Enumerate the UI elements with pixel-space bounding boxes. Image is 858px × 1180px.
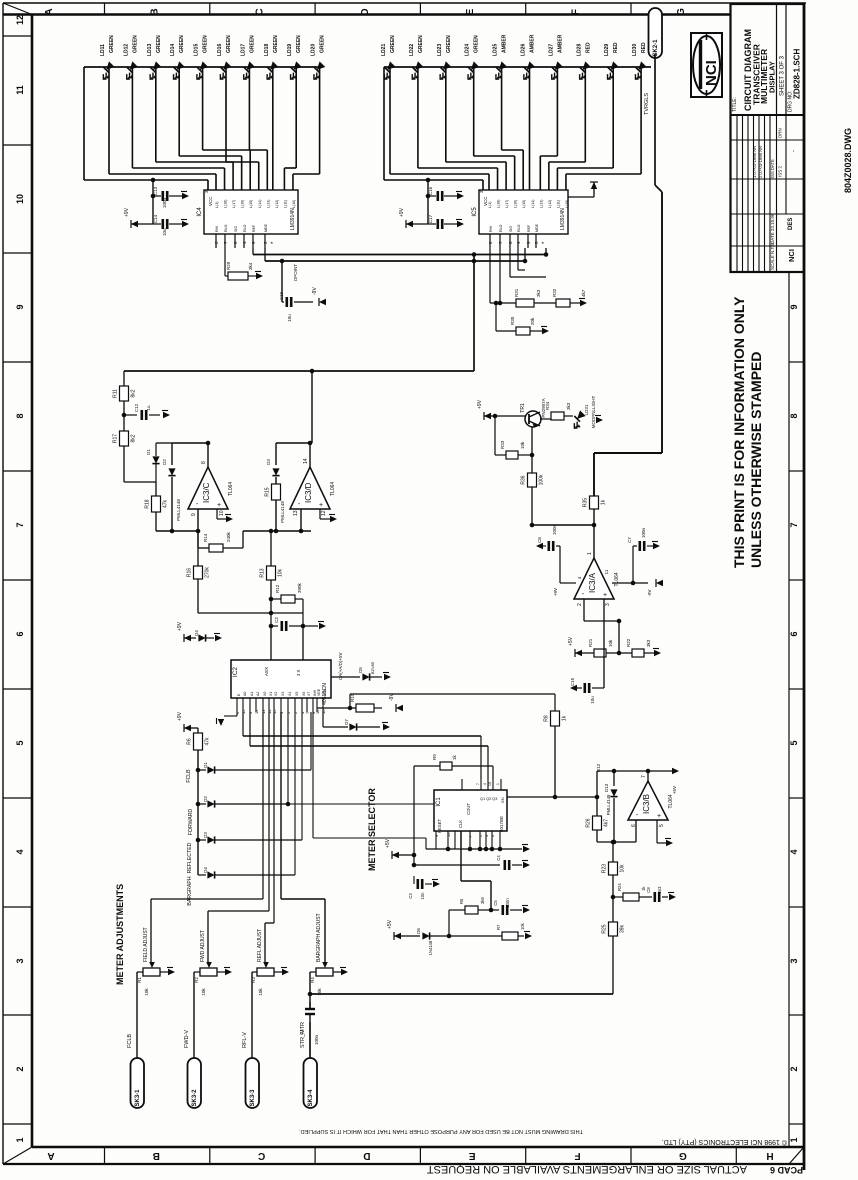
LED LD16 GREEN [214,61,235,82]
svg-text:3n3: 3n3 [657,886,662,894]
power pin 11 -9V right [612,582,648,584]
svg-text:L(18): L(18) [224,200,228,208]
svg-text:PCAD 6: PCAD 6 [770,1165,803,1175]
svg-text:UNLESS OTHERWISE STAMPED: UNLESS OTHERWISE STAMPED [748,351,764,568]
svg-text:+5V: +5V [385,838,391,848]
svg-text:FCLB: FCLB [186,769,192,783]
resistor R16 270k to output node [197,531,199,566]
svg-text:L(15): L(15) [522,200,526,208]
wire to IC3/D in- node [243,530,311,532]
svg-text:L(13): L(13) [539,200,543,208]
svg-text:IC3/A: IC3/A [588,572,597,593]
svg-text:10k: 10k [520,441,525,449]
svg-text:MDE: MDE [264,223,268,232]
svg-text:LD17: LD17 [240,44,246,56]
svg-text:RESET: RESET [437,819,442,833]
svg-text:FWD-V: FWD-V [184,1030,190,1048]
svg-text:100n: 100n [314,1034,319,1045]
trimpot RV4 10k BARGRAPH ADJUST [281,898,325,900]
svg-text:LD15: LD15 [194,44,200,56]
svg-text:10k: 10k [620,864,626,873]
svg-text:D1: D1 [203,762,208,768]
svg-text:10u: 10u [162,228,167,236]
IC IC1 4017 box [434,790,507,831]
svg-text:© 1998 NCI ELECTRONICS (PTY): © 1998 NCI ELECTRONICS (PTY) LTD. [662,1138,787,1146]
LED LD17 GREEN [237,61,258,82]
resistor R6 47k pullup [184,725,191,731]
wires into IC2 top pins [270,626,272,660]
svg-text:14: 14 [303,458,309,464]
op-amp IC3/C TL064 [188,467,228,509]
svg-text:+9V: +9V [553,588,558,596]
svg-text:REFLECTED: REFLECTED [187,842,193,873]
svg-text:R6: R6 [187,738,193,745]
svg-text:C13: C13 [153,186,158,195]
svg-text:B: B [153,1150,160,1161]
svg-text:R1: R1 [137,977,142,983]
resistor R13 10k [270,531,272,566]
wire lower node line [198,612,303,614]
svg-text:LD18: LD18 [264,44,270,56]
svg-text:9: 9 [15,304,25,309]
resistor R15 560R [272,484,281,500]
resistor R26 4k7 [593,816,602,830]
svg-text:R8: R8 [544,715,550,722]
svg-text:X0: X0 [263,692,267,696]
wires LED group1 to IC4 pins [108,67,110,174]
diode D7 row [322,712,324,727]
svg-text:X6: X6 [302,692,306,696]
svg-text:RHI: RHI [215,226,219,232]
diode D1 branch FCLB [196,768,201,773]
op-amp IC3/D TL064 [290,467,330,509]
svg-text:+9V: +9V [477,399,483,409]
title block outline [731,4,805,272]
svg-text:C1: C1 [299,1029,304,1035]
diode D5 zener row at IC2 right [331,676,360,678]
wire LED supply rail group1 [84,66,321,68]
power +5V diode D6 row [394,933,401,939]
svg-text:C3: C3 [408,893,413,899]
wire IC3/B in+ ground [656,820,658,843]
svg-text:C10: C10 [279,291,284,300]
svg-text:1k: 1k [601,499,607,505]
zener D4 with +9V [184,635,191,641]
svg-text:X4: X4 [288,692,292,696]
svg-text:BZV85: BZV85 [370,661,375,674]
svg-text:3: 3 [789,958,799,963]
wire node to IC3/A output [532,524,594,526]
resistor R34 3k3 [551,412,564,420]
svg-text:REF: REF [527,224,531,232]
svg-text:C12: C12 [134,403,139,412]
resistor R17 8k2 [120,431,129,446]
svg-text:RED: RED [585,42,591,53]
svg-text:LD21: LD21 [381,44,387,56]
svg-text:PMLL4148: PMLL4148 [280,501,285,523]
svg-text:C: C [258,1150,265,1161]
capacitor C14 10u [153,223,161,225]
svg-text:RLO: RLO [243,224,247,232]
svg-text:IC2: IC2 [232,667,239,678]
svg-text:L(12): L(12) [275,200,279,208]
svg-text:+9V: +9V [124,207,130,217]
svg-text:LD23: LD23 [437,44,443,56]
svg-text:DPOINT: DPOINT [293,264,298,281]
svg-text:DES: DES [788,218,794,230]
connector pin SK3-3 [246,1058,260,1108]
wire IC3/B output and +5V stub [647,771,649,781]
wire IC1 bus 865 [414,864,500,866]
LED LD21 GREEN [378,61,399,82]
svg-text:+: + [217,502,221,509]
wire group1 V+ drop to IC4 VCC [83,67,85,180]
svg-text:8: 8 [15,413,25,418]
svg-text:IC3/D: IC3/D [304,482,313,503]
svg-text:1 07-01-1998 NR: 1 07-01-1998 NR [752,146,757,178]
resistors below IC5: R31 R32 row [489,248,491,303]
svg-text:THIS DRAWING MUST NOT BE USED: THIS DRAWING MUST NOT BE USED FOR ANY PU… [299,1128,583,1134]
svg-text:LD13: LD13 [147,44,153,56]
svg-text:IC3/C: IC3/C [202,482,211,503]
wire long bottom horizontal to STR_MTR net [310,993,613,995]
svg-text:LD22: LD22 [409,44,415,56]
svg-text:+5V: +5V [568,636,574,646]
wire IC3/A in- network [583,599,585,621]
svg-text:R12: R12 [275,584,280,593]
svg-text:7: 7 [476,783,480,785]
svg-text:R15: R15 [265,487,271,496]
svg-text:METER SELECTOR: METER SELECTOR [367,788,377,871]
svg-text:D: D [363,1150,370,1161]
svg-text:3k3: 3k3 [646,639,651,647]
svg-text:D2: D2 [162,459,167,465]
svg-text:390k: 390k [297,582,302,593]
svg-text:2: 2 [15,1066,25,1071]
power +9V arrow group1 [131,221,138,227]
capacitor C7 100n [632,546,634,583]
svg-text:ISS 2: ISS 2 [778,165,783,177]
diode D13 PMLL4148 on feedback [613,771,615,786]
svg-text:L(11): L(11) [556,200,560,208]
resistor R35 1k [590,496,599,509]
svg-text:C2: C2 [274,617,279,623]
svg-text:1k: 1k [452,754,457,760]
title block dividers [776,4,778,115]
wire IC3/A in+ down [603,599,605,688]
svg-text:804Z0028.DWG: 804Z0028.DWG [843,128,853,193]
svg-text:9: 9 [191,513,197,516]
svg-text:R33: R33 [500,440,505,449]
capacitor C13 100n [153,195,161,197]
resistor R23 10k [612,842,614,862]
svg-text:TL064: TL064 [614,572,620,586]
svg-text:SK3-3: SK3-3 [250,1089,256,1107]
IC1 top pin stubs [461,779,463,790]
svg-text:SIG: SIG [234,226,238,232]
svg-text:GREEN: GREEN [226,35,232,53]
wires IC5 pins 8 4 down [509,248,511,277]
wire IC3/D in- down [300,509,302,531]
svg-text:4: 4 [789,849,799,854]
svg-text:R32: R32 [552,288,557,297]
wire to decoupling caps IC5 [427,180,429,224]
svg-text:GREEN: GREEN [474,35,480,53]
LED LD29 RED [601,61,622,82]
svg-text:GREEN: GREEN [203,35,209,53]
svg-text:-: - [791,150,797,152]
svg-text:A0: A0 [243,692,247,696]
diode D2 PMLL4148 feedback [171,443,173,465]
svg-text:C17: C17 [428,214,433,223]
svg-text:LD31: LD31 [584,404,589,415]
svg-text:LD19: LD19 [287,44,293,56]
svg-text:GREEN: GREEN [109,35,115,53]
svg-text:10k: 10k [201,988,206,996]
svg-text:3k3: 3k3 [566,402,571,410]
zone numbers left edge [3,35,32,37]
svg-text:L(16): L(16) [514,200,518,208]
svg-text:SK3-2: SK3-2 [192,1089,198,1107]
LED LD14 GREEN [167,61,188,82]
svg-text:SCALE N.T.S.: SCALE N.T.S. [770,242,775,270]
svg-text:-9V: -9V [647,589,652,596]
svg-text:4k7: 4k7 [604,819,610,827]
svg-text:A1: A1 [250,692,254,696]
svg-text:ZD828-1.SCH: ZD828-1.SCH [793,49,802,99]
svg-text:R29: R29 [226,261,231,270]
svg-text:L(17): L(17) [505,200,509,208]
svg-text:*: * [271,241,277,244]
svg-text:G: G [679,1150,687,1161]
svg-text:R11: R11 [113,389,119,398]
svg-text:MDE: MDE [535,223,539,232]
svg-text:A0/X: A0/X [264,667,269,676]
svg-text:10n: 10n [420,892,425,900]
svg-text:L(1): L(1) [215,202,219,208]
svg-text:8k2: 8k2 [131,389,137,397]
svg-text:R34: R34 [545,401,550,410]
svg-text:20k: 20k [530,317,535,325]
resistor R12 390k feedback lower [271,598,281,600]
svg-text:D1: D1 [146,449,151,455]
svg-text:X2: X2 [274,692,278,696]
svg-text:9: 9 [789,304,799,309]
wire thick L to R35 [594,452,662,454]
resistor R33 10k [495,454,506,456]
LED LD15 GREEN [191,61,212,82]
svg-text:DATE 23.10.96: DATE 23.10.96 [770,213,775,244]
svg-text:GREEN: GREEN [320,35,326,53]
svg-text:DISPLAY: DISPLAY [768,61,777,93]
LED LD12 GREEN [120,61,141,82]
svg-text:10: 10 [488,782,492,786]
revision table columns [736,115,738,272]
wires IC2 to diode ladder [294,712,296,875]
connector pin SK3-2 [188,1058,202,1108]
diode D3 PMLL4148 [275,443,277,465]
wire IC2 pin to IC1 left 804 [287,712,289,804]
svg-text:C14: C14 [153,214,158,223]
border outer frame [3,2,806,4]
power +9V arrow group2 [406,221,413,227]
svg-text:2: 2 [789,1066,799,1071]
svg-text:AMBER: AMBER [502,34,508,53]
svg-text:240k: 240k [226,531,231,542]
svg-text:1: 1 [587,552,593,555]
svg-text:R36: R36 [521,475,527,484]
resistor R21 10k [575,650,582,656]
svg-text:SK2-1: SK2-1 [653,39,659,57]
LED LD13 GREEN [144,61,165,82]
connector pin SK3-1 [131,1058,145,1108]
op-amp IC3/A TL064 [574,558,614,599]
transistor TR1 PN2907A [525,411,541,427]
svg-text:1: 1 [15,1137,25,1142]
trimpot RV2 10k FWD ADJUST [208,910,269,912]
svg-text:A: A [47,1150,54,1161]
svg-text:3: 3 [605,603,611,606]
svg-text:LD24: LD24 [465,44,471,56]
border corner diagonals [3,3,32,15]
svg-text:3: 3 [15,958,25,963]
svg-text:LD12: LD12 [123,44,129,56]
svg-text:15: 15 [446,832,451,837]
svg-text:R5: R5 [459,898,464,904]
svg-text:VEE: VEE [317,688,321,696]
svg-text:R4: R4 [310,977,315,983]
svg-text:13: 13 [293,510,299,516]
svg-text:6: 6 [789,631,799,636]
svg-text:R23: R23 [602,864,608,873]
svg-text:D4: D4 [194,630,199,636]
wire from TVRGLS pin down the right side [654,54,656,185]
wire IC2 to R8 chain [306,712,308,718]
power +5V to IC1 [392,852,399,858]
resistor R18 47k [152,496,161,512]
IC IC2 4051 box [231,660,331,698]
svg-text:CLK: CLK [458,820,463,828]
svg-text:10: 10 [15,194,25,204]
svg-text:39k: 39k [620,924,626,933]
svg-text:FIELD ADJUST: FIELD ADJUST [143,927,149,962]
border inner frame [31,15,34,1148]
svg-text:IC3/B: IC3/B [642,794,651,814]
svg-text:10k: 10k [520,922,525,930]
svg-text:100n: 100n [641,527,646,538]
svg-text:12: 12 [321,510,327,516]
svg-text:RED: RED [613,42,619,53]
svg-text:100n: 100n [552,524,557,535]
capacitor C3 10n [413,865,415,884]
svg-text:8k2: 8k2 [131,434,137,442]
svg-text:270k: 270k [205,567,211,578]
svg-text:NCI: NCI [703,60,720,86]
svg-text:BARGRAPH ADJUST: BARGRAPH ADJUST [316,913,322,962]
svg-text:C5: C5 [493,900,498,906]
svg-text:R7: R7 [496,924,501,930]
svg-text:+: + [657,813,661,820]
svg-text:2 07-03-1998 NR: 2 07-03-1998 NR [758,146,763,178]
svg-text:4: 4 [15,849,25,854]
IC4 bottom pin stubs [215,234,217,248]
resistor R11 8k2 input chain [123,371,125,386]
svg-text:DRN: DRN [778,128,783,138]
svg-text:5: 5 [789,740,799,745]
svg-text:D7: D7 [344,719,349,725]
resistor R30 20k [495,303,497,331]
capacitor C8 3n3 [653,892,656,902]
svg-text:PMLL4148: PMLL4148 [606,794,611,815]
wire in- node bottom rail [597,841,636,843]
svg-text:ISS DATE: ISS DATE [770,159,775,178]
svg-text:C: C [255,8,266,15]
svg-text:LD27: LD27 [548,44,554,56]
svg-text:Q1 Q2 Q3: Q1 Q2 Q3 [480,797,497,801]
svg-text:D3: D3 [203,832,208,838]
svg-text:BARGRAPH: BARGRAPH [187,876,193,905]
svg-text:10u: 10u [287,314,292,322]
capacitor C2 10n [270,613,272,626]
trimpot RV1 10k FIELD ADJUST [151,898,263,900]
LED LD22 GREEN [406,61,427,82]
svg-text:L(1): L(1) [488,202,492,208]
resistor R7a 3k9 [449,909,465,911]
svg-text:1: 1 [789,1137,799,1142]
svg-text:R31: R31 [514,288,519,297]
svg-text:B: B [149,8,160,15]
svg-text:C16: C16 [428,186,433,195]
svg-text:D5: D5 [358,667,363,673]
svg-text:E: E [465,8,476,15]
svg-text:D12: D12 [596,763,601,772]
svg-text:R2: R2 [194,977,199,983]
diode D1 PMLL4148 [155,443,157,456]
svg-text:L(11): L(11) [283,200,287,208]
resistor R7 10k [502,932,518,940]
svg-text:E: E [469,1150,476,1161]
resistor R29 3k4 below IC4 [224,248,226,276]
svg-text:12: 12 [15,15,25,25]
wire IC1 ground bus 849 [426,848,522,850]
svg-text:3k9: 3k9 [480,897,485,904]
diode D2 branch FORWARD [196,802,201,807]
resistor R14 240k to next stage [197,531,199,548]
svg-text:12: 12 [254,709,259,714]
svg-text:A2: A2 [256,692,260,696]
svg-text:FWD ADJUST: FWD ADJUST [200,930,206,962]
wire IC3/B feedback loop [597,770,648,772]
svg-text:D3: D3 [266,459,271,465]
IC IC4 LM3914N box [204,190,298,234]
svg-text:D: D [360,8,371,15]
svg-text:7: 7 [641,775,647,778]
wire bus B (IC4 pin5 to IC5 pin9) [264,248,266,261]
svg-text:R24: R24 [617,883,622,891]
svg-text:RHI: RHI [489,226,493,232]
svg-text:IC4: IC4 [197,207,203,217]
resistor R36 100k [531,455,533,473]
svg-text:VSS: VSS [323,688,327,696]
svg-text:LD25: LD25 [493,44,499,56]
svg-text:C8: C8 [646,887,651,893]
wire IC3/C feedback top rail [172,442,208,444]
svg-text:PMLL4148: PMLL4148 [176,499,181,521]
svg-text:+5V: +5V [672,786,677,794]
svg-text:+9V: +9V [399,207,405,217]
wire TR1 base bias [494,416,496,455]
svg-text:11: 11 [15,85,25,95]
